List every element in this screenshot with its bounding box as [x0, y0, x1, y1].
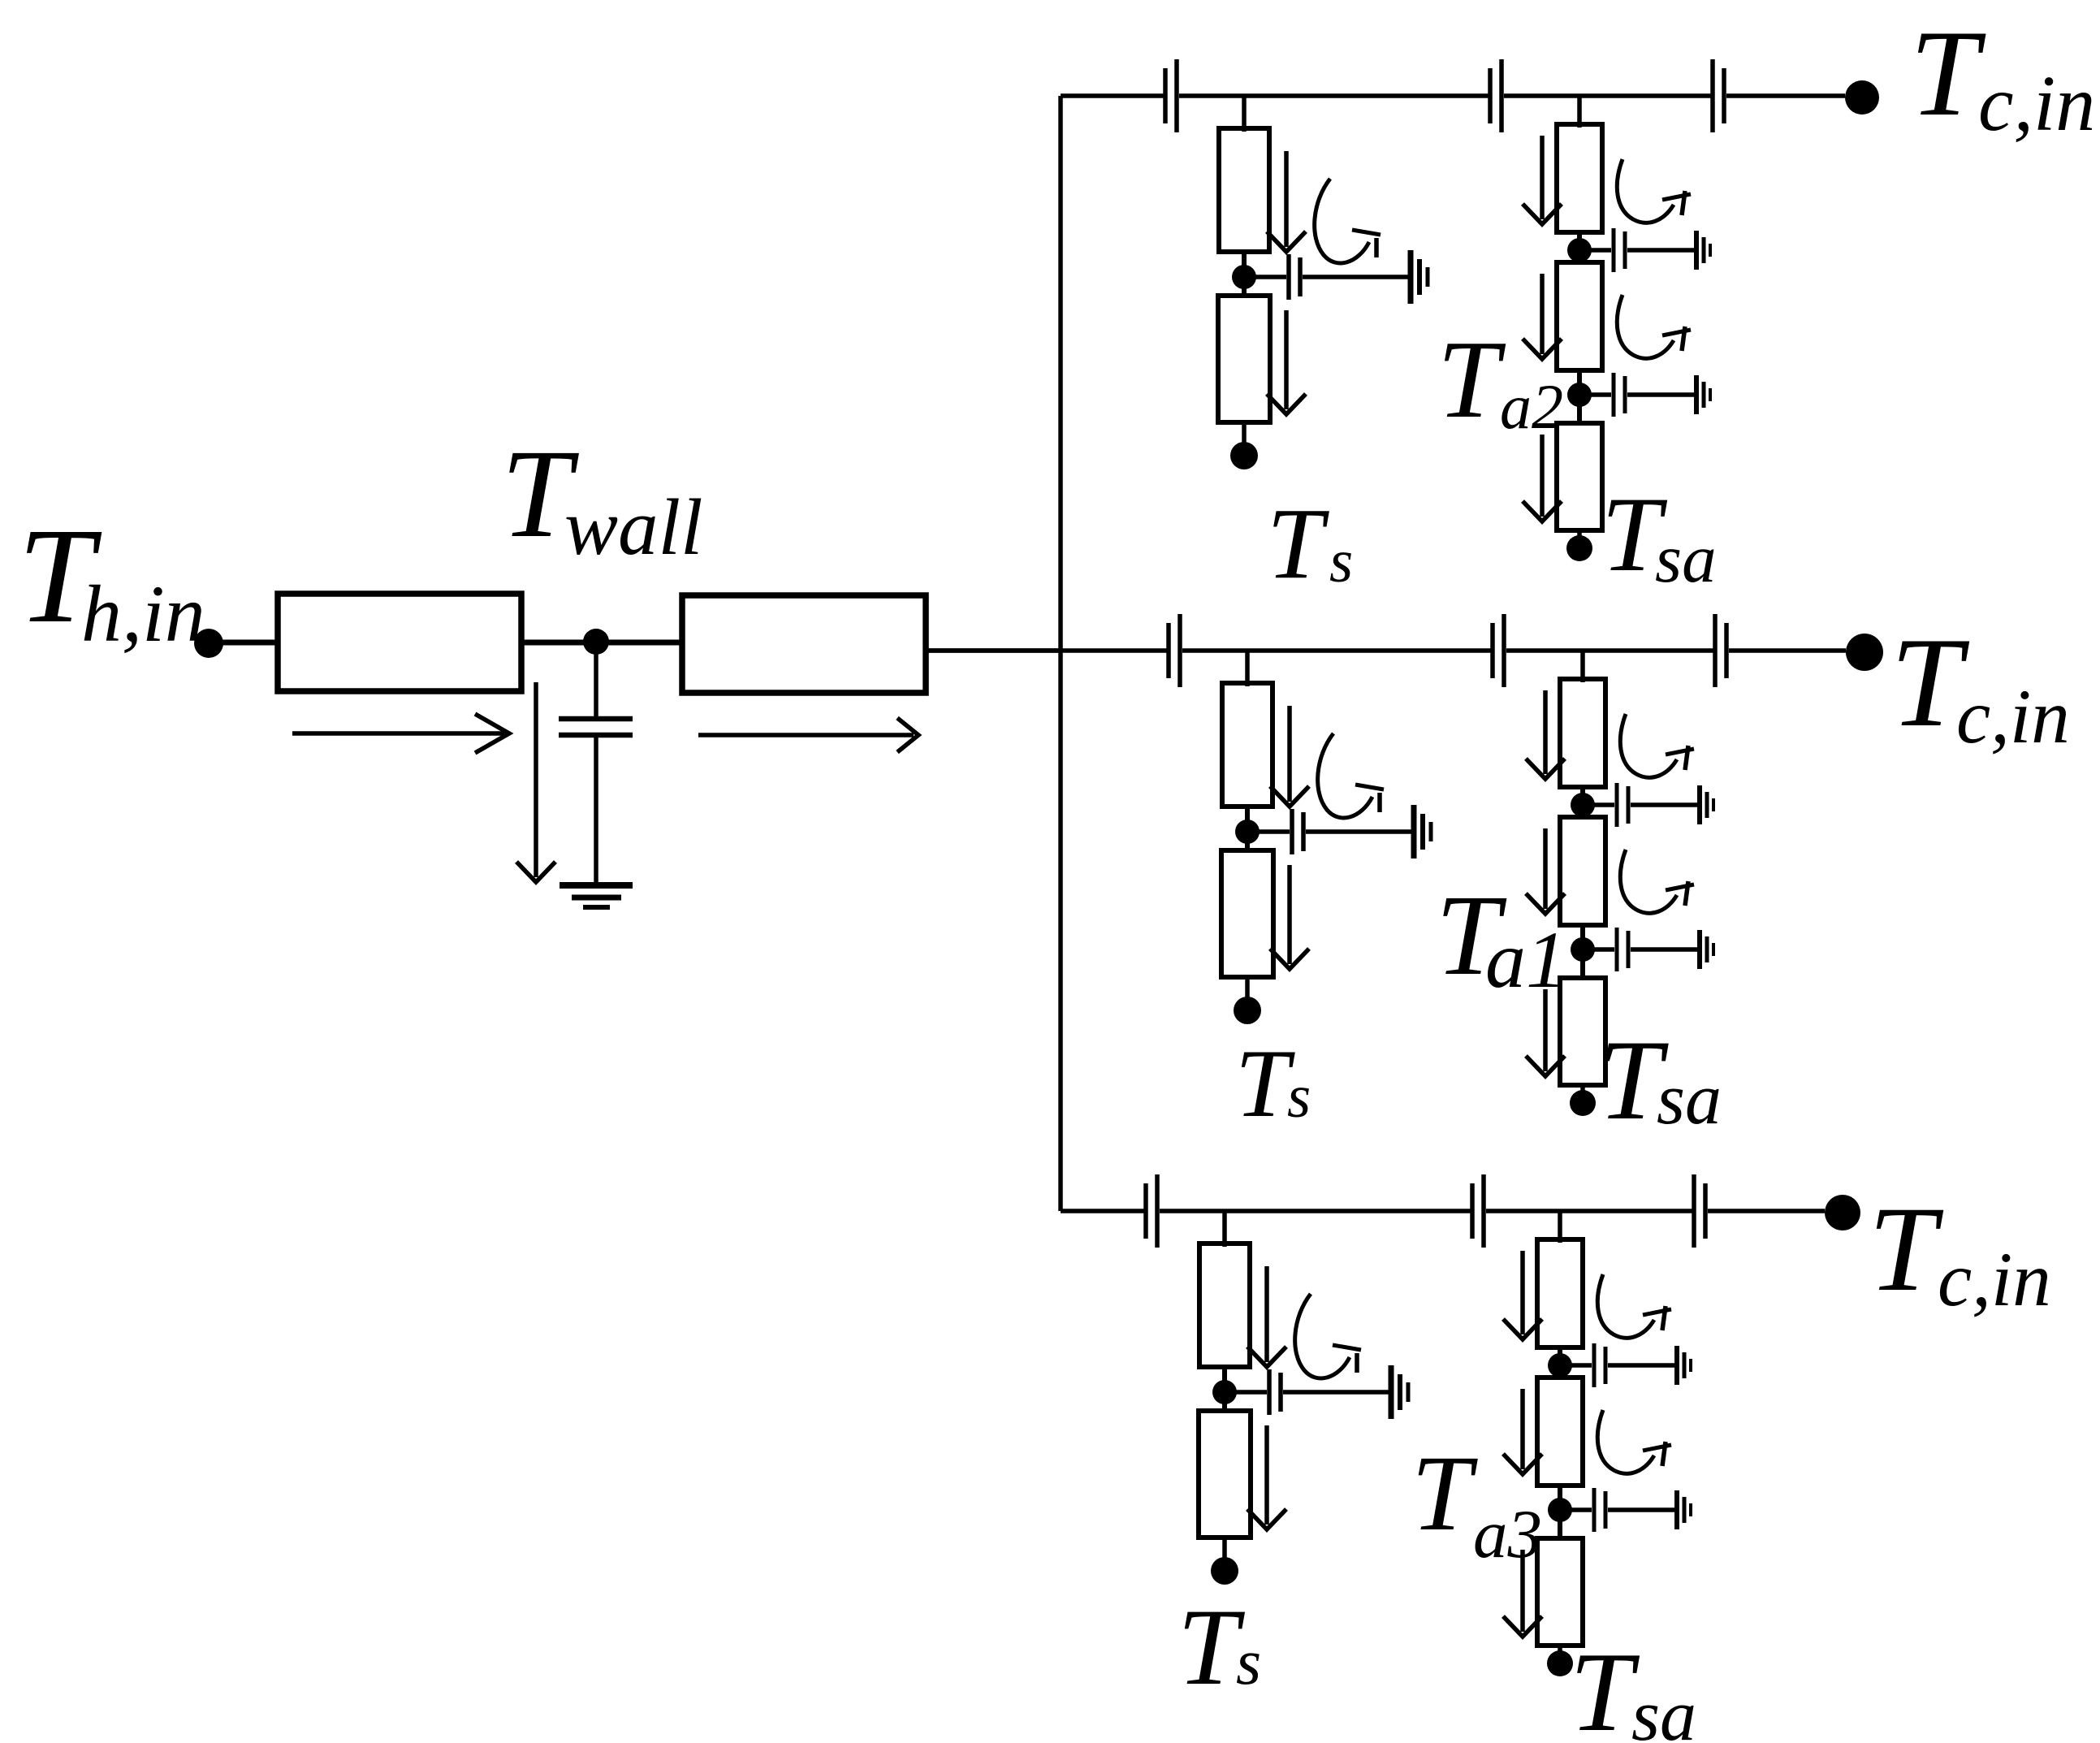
heat-flow arrow: [1267, 310, 1306, 414]
wire: [1593, 802, 1614, 807]
wire: [1627, 248, 1696, 253]
node T_wall junction: [583, 629, 609, 655]
resistor R_a3: [1557, 423, 1602, 530]
heat-flow arrow: [1526, 690, 1565, 779]
heat-loss arrow: [516, 682, 555, 882]
resistor R_s1: [1219, 128, 1269, 252]
wire: [1182, 648, 1493, 653]
wire: [1222, 1365, 1227, 1412]
label T_a1: [1436, 871, 1566, 1005]
label T_c,in: [1869, 1182, 2051, 1322]
series capacitor C1: [1169, 614, 1180, 687]
wire: [1486, 1209, 1694, 1213]
series capacitor C3: [1715, 614, 1726, 687]
capacitor C_a2: [1617, 928, 1628, 971]
wire: [1558, 1346, 1562, 1379]
wire: [1506, 648, 1715, 653]
wire: [1631, 947, 1699, 952]
wire: [1580, 1085, 1585, 1093]
node T_sa terminal: [1570, 1090, 1596, 1116]
wire: [1303, 275, 1410, 279]
wire: [925, 648, 1169, 653]
svg-text:wall: wall: [564, 483, 703, 572]
wire: [1627, 392, 1696, 397]
heat-flow arrow: [1526, 989, 1565, 1076]
wire: [1558, 1484, 1562, 1540]
label T_sa: [1598, 1017, 1722, 1144]
wire: [1242, 96, 1247, 132]
ground: [1391, 1365, 1408, 1419]
convection curl arrow: [1318, 733, 1384, 818]
series capacitor C3: [1694, 1174, 1705, 1248]
convection curl arrow: [1597, 1274, 1671, 1338]
label T_c,in: [1890, 612, 2070, 759]
heat-flow arrow: [1267, 151, 1306, 252]
svg-text:sa: sa: [1657, 1059, 1722, 1140]
label T_s: [1177, 1587, 1261, 1708]
svg-text:c,in: c,in: [1938, 1236, 2051, 1322]
resistor R_s1: [1222, 683, 1273, 807]
wire: [1283, 1390, 1390, 1395]
wire: [1242, 250, 1247, 297]
node T_a junction: [1567, 383, 1592, 407]
series capacitor C1: [1146, 1174, 1157, 1248]
heat-flow arrow: [292, 714, 509, 753]
convection curl arrow: [1620, 714, 1694, 777]
label T_a2: [1437, 318, 1563, 442]
resistor R_a3: [1560, 978, 1605, 1085]
node junction: [1571, 793, 1595, 817]
wire: [1608, 1507, 1676, 1512]
series capacitor C2: [1490, 59, 1502, 132]
svg-text:T: T: [1869, 1182, 1944, 1317]
wire: [1306, 829, 1413, 834]
resistor R_a3: [1537, 1538, 1583, 1646]
wire: [1222, 1211, 1227, 1247]
wire: [221, 640, 278, 646]
node T_sa terminal: [1566, 535, 1592, 561]
svg-text:T: T: [1910, 5, 1986, 141]
heat-flow arrow: [1526, 828, 1565, 914]
resistor R_a2: [1537, 1378, 1583, 1486]
node junction: [1567, 238, 1592, 262]
wire: [1726, 93, 1845, 98]
node T_s terminal: [1234, 997, 1261, 1024]
resistor R_a1: [1557, 124, 1602, 232]
series capacitor C2: [1472, 1174, 1484, 1248]
series capacitor C2: [1493, 614, 1504, 687]
wire: [1577, 530, 1582, 538]
wire: [1631, 802, 1699, 807]
resistor R_a2: [1557, 262, 1602, 370]
svg-text:a2: a2: [1500, 371, 1563, 442]
wire: [1577, 96, 1582, 128]
wire: [1580, 651, 1585, 682]
svg-text:T: T: [1235, 1029, 1295, 1137]
svg-text:c,in: c,in: [1978, 60, 2095, 148]
heat-flow arrow: [1247, 1425, 1286, 1529]
wire: [1590, 248, 1611, 253]
series capacitor C1: [1165, 59, 1177, 132]
wire: [925, 648, 1061, 653]
convection curl arrow: [1620, 850, 1694, 913]
wire: [594, 642, 598, 716]
heat-flow arrow: [1270, 706, 1309, 807]
node junction: [1212, 1380, 1237, 1404]
wire: [1571, 1507, 1592, 1512]
label T_wall: [501, 423, 703, 572]
wire: [1608, 1363, 1676, 1368]
wire: [1245, 651, 1250, 686]
wire: [594, 737, 598, 885]
node T_c,in terminal: [1825, 1195, 1860, 1230]
wire: [1245, 977, 1250, 998]
heat-flow arrow: [1503, 1389, 1542, 1474]
ground: [1696, 375, 1710, 414]
capacitor C_a2: [1594, 1488, 1605, 1532]
label T_s: [1235, 1029, 1311, 1137]
capacitor C_s: [1289, 254, 1300, 300]
svg-text:T: T: [1437, 318, 1506, 441]
convection curl arrow: [1617, 295, 1691, 358]
node T_a junction: [1548, 1498, 1572, 1522]
ground: [1700, 785, 1713, 824]
wire: [1504, 93, 1713, 98]
node T_h,in terminal: [194, 629, 223, 658]
ground: [1677, 1346, 1691, 1385]
wire: [1061, 93, 1165, 98]
svg-text:c,in: c,in: [1956, 673, 2070, 759]
svg-text:T: T: [1267, 488, 1329, 600]
heat-flow arrow: [1523, 435, 1562, 521]
resistor R_s2: [1221, 850, 1273, 977]
heat-flow arrow: [1247, 1266, 1286, 1367]
ground: [1700, 930, 1713, 969]
wire: [1593, 947, 1614, 952]
wire: [521, 640, 585, 646]
resistor R_h (hot-side convection): [278, 594, 521, 691]
wire: [1558, 1646, 1562, 1654]
capacitor C_s: [1269, 1369, 1281, 1415]
resistor R_s2: [1199, 1411, 1251, 1538]
convection curl arrow: [1315, 179, 1381, 263]
resistor R_s2: [1218, 296, 1270, 422]
wire: [1222, 1538, 1227, 1559]
capacitor C_wall: [559, 719, 633, 735]
convection curl arrow: [1617, 159, 1691, 223]
wire: [1259, 829, 1290, 834]
svg-text:T: T: [1411, 1433, 1478, 1553]
convection curl arrow: [1597, 1410, 1671, 1473]
wire: [1245, 805, 1250, 852]
node junction: [1232, 265, 1256, 289]
wire: [1577, 231, 1582, 264]
bus wire: [1058, 96, 1063, 1211]
node T_c,in terminal: [1845, 80, 1879, 115]
capacitor C_a1: [1594, 1343, 1605, 1387]
heat-flow arrow: [1503, 1550, 1542, 1637]
label T_a3: [1411, 1433, 1542, 1572]
svg-text:h,in: h,in: [81, 569, 205, 659]
ground: [1411, 250, 1428, 304]
wire: [607, 640, 682, 646]
node T_s terminal: [1211, 1557, 1238, 1585]
wire: [1577, 369, 1582, 425]
node junction: [1548, 1353, 1572, 1378]
wire: [1580, 923, 1585, 980]
resistor R_a1: [1537, 1239, 1583, 1347]
svg-text:s: s: [1236, 1627, 1261, 1698]
svg-text:a3: a3: [1473, 1496, 1542, 1572]
svg-text:s: s: [1329, 528, 1353, 595]
ground: [1677, 1490, 1691, 1529]
node junction: [1235, 820, 1260, 844]
svg-text:sa: sa: [1631, 1676, 1696, 1743]
label T_sa: [1601, 474, 1717, 597]
wire: [1729, 648, 1846, 653]
heat-flow arrow: [1523, 136, 1562, 224]
svg-text:s: s: [1287, 1063, 1311, 1131]
ground: [1414, 805, 1431, 859]
label T_s: [1267, 488, 1353, 600]
label T_sa: [1570, 1629, 1696, 1743]
wire: [1160, 1209, 1472, 1213]
svg-text:a1: a1: [1485, 915, 1566, 1005]
svg-text:sa: sa: [1655, 521, 1717, 597]
resistor R_c (cold-side convection): [682, 595, 926, 693]
heat-flow arrow: [1270, 865, 1309, 969]
wire: [1558, 1211, 1562, 1243]
heat-flow arrow: [698, 718, 918, 752]
node T_c,in terminal: [1846, 634, 1883, 671]
svg-text:T: T: [1570, 1629, 1640, 1743]
wire: [1571, 1363, 1592, 1368]
ground: [560, 885, 633, 907]
label T_h,in: [18, 500, 205, 659]
resistor R_s1: [1199, 1243, 1250, 1367]
series capacitor C3: [1713, 59, 1724, 132]
heat-flow arrow: [1503, 1251, 1542, 1339]
wire: [1580, 785, 1585, 819]
wire: [1179, 93, 1490, 98]
wire: [1708, 1209, 1825, 1213]
convection curl arrow: [1295, 1294, 1361, 1378]
resistor R_a2: [1560, 817, 1605, 925]
node T_a junction: [1571, 937, 1595, 962]
resistor R_a1: [1560, 679, 1605, 787]
capacitor C_s: [1292, 809, 1303, 854]
capacitor C_a1: [1614, 228, 1625, 272]
wire: [1061, 1209, 1146, 1213]
capacitor C_a1: [1617, 783, 1628, 827]
wire: [1590, 392, 1611, 397]
heat-flow arrow: [1523, 274, 1562, 359]
capacitor C_a2: [1614, 373, 1625, 417]
wire: [1255, 275, 1286, 279]
node T_sa terminal: [1547, 1650, 1573, 1676]
label T_c,in: [1910, 5, 2095, 148]
node T_s terminal: [1230, 442, 1258, 469]
wire: [1236, 1390, 1267, 1395]
ground: [1696, 231, 1710, 270]
wire: [1242, 422, 1247, 443]
